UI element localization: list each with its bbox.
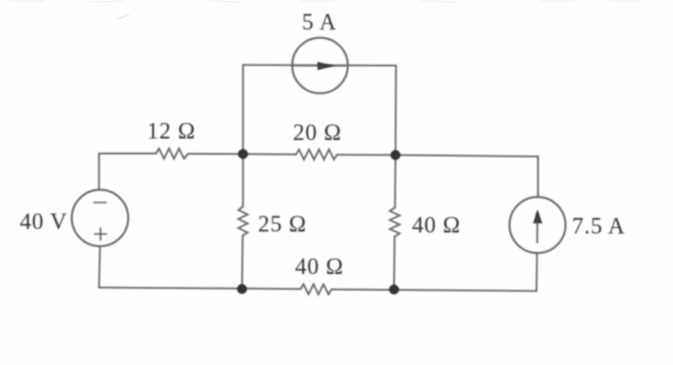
wire between R1 and node A xyxy=(188,153,243,155)
svg-text:5 A: 5 A xyxy=(302,10,337,35)
faint scan speck top-left xyxy=(117,15,129,19)
arrow shaft of I2 xyxy=(536,213,538,243)
minus sign of V1 xyxy=(94,202,106,204)
svg-text:40 Ω: 40 Ω xyxy=(412,213,461,238)
svg-text:20 Ω: 20 Ω xyxy=(293,120,342,145)
svg-text:40 V: 40 V xyxy=(20,209,68,234)
node D junction dot xyxy=(389,285,399,295)
wire node B to top-right corner xyxy=(396,155,539,157)
node C junction dot xyxy=(237,284,247,294)
arrowhead of I1 xyxy=(317,62,334,70)
plus sign of V1 xyxy=(95,233,107,235)
arrow shaft of I1 xyxy=(293,65,345,67)
resistor R4 40ohm vertical xyxy=(390,208,400,237)
wire right branch upper xyxy=(537,157,539,198)
resistor R2 20ohm xyxy=(296,149,337,159)
current source I2 7.5A circle xyxy=(510,197,566,253)
wire main left segment xyxy=(99,153,156,155)
wire right-middle branch lower xyxy=(393,237,396,290)
current source I1 5A circle xyxy=(292,38,348,94)
node B junction dot xyxy=(391,150,401,160)
wire left branch upper xyxy=(98,154,100,191)
wire middle branch lower xyxy=(241,236,244,290)
svg-text:7.5 A: 7.5 A xyxy=(572,214,625,239)
svg-text:25 Ω: 25 Ω xyxy=(258,212,307,237)
resistor R3 25ohm vertical xyxy=(238,207,247,236)
faint scan specks top edge xyxy=(10,1,640,2)
wire top loop right vertical xyxy=(395,66,398,156)
wire top loop left vertical xyxy=(242,65,244,154)
wire left branch lower xyxy=(99,246,100,287)
wire node A to R2 xyxy=(243,153,296,155)
wire right branch lower xyxy=(536,253,539,291)
wire bottom right segment xyxy=(332,289,537,291)
arrowhead of I2 xyxy=(533,209,542,223)
node A junction dot xyxy=(238,149,248,159)
wire R2 to node B xyxy=(337,154,396,156)
svg-text:12 Ω: 12 Ω xyxy=(147,119,196,144)
svg-text:40 Ω: 40 Ω xyxy=(295,254,344,279)
wire middle branch upper xyxy=(242,154,244,207)
wire bottom left segment xyxy=(99,288,301,290)
resistor R5 40ohm bottom xyxy=(301,284,332,294)
resistor R1 12ohm xyxy=(156,149,188,159)
voltage source V1 40V circle xyxy=(72,190,128,246)
wire top loop horizontal xyxy=(243,64,396,67)
wire right-middle branch upper xyxy=(394,155,397,208)
